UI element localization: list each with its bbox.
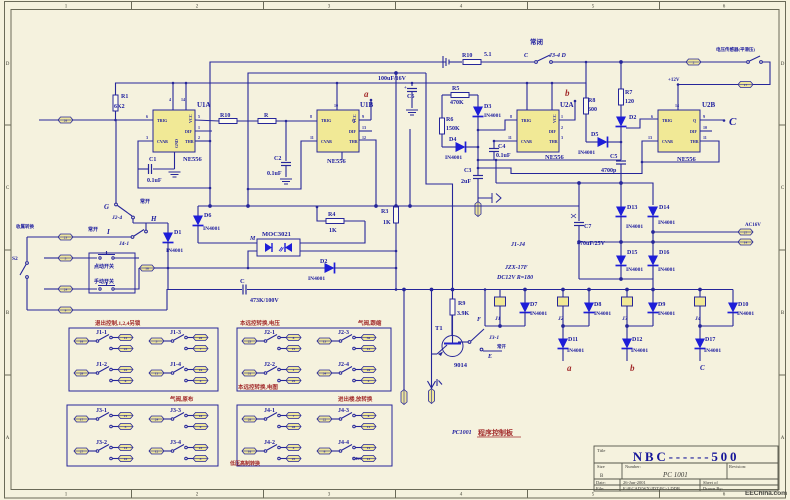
svg-text:R8: R8 bbox=[588, 98, 595, 104]
svg-text:J1-3: J1-3 bbox=[170, 330, 181, 336]
svg-text:0.1uF: 0.1uF bbox=[496, 153, 511, 159]
diode D16 bbox=[648, 242, 676, 279]
svg-text:20: 20 bbox=[248, 417, 252, 421]
svg-text:J3-3: J3-3 bbox=[170, 408, 181, 414]
relay coil J4 bbox=[694, 290, 706, 327]
svg-text:File:: File: bbox=[596, 486, 604, 491]
svg-text:J3-1: J3-1 bbox=[488, 335, 499, 341]
wire AC16V upper bbox=[652, 231, 738, 234]
diode D14 bbox=[648, 205, 676, 242]
relay contact J4-1 bbox=[242, 408, 301, 430]
resistor R9 3.9K bbox=[426, 73, 470, 336]
svg-text:9: 9 bbox=[703, 114, 705, 119]
svg-text:NE556: NE556 bbox=[677, 156, 697, 163]
svg-text:IN4001: IN4001 bbox=[658, 267, 675, 273]
svg-text:10: 10 bbox=[124, 457, 128, 461]
svg-text:IN4001: IN4001 bbox=[166, 248, 183, 254]
svg-text:IN4001: IN4001 bbox=[631, 348, 648, 354]
svg-text:D4: D4 bbox=[449, 137, 456, 143]
diode D17 bbox=[695, 326, 722, 361]
svg-text:TRIG: TRIG bbox=[321, 118, 331, 123]
svg-text:IN4001: IN4001 bbox=[530, 311, 547, 317]
svg-text:MOC3021: MOC3021 bbox=[262, 231, 291, 238]
relay contact J2-4 bbox=[317, 362, 376, 384]
svg-text:PC1001: PC1001 bbox=[452, 430, 472, 436]
svg-text:17: 17 bbox=[80, 417, 84, 421]
svg-text:IN4001: IN4001 bbox=[578, 150, 595, 156]
wire rail leg4 bbox=[699, 325, 733, 328]
svg-text:R3: R3 bbox=[381, 209, 388, 215]
svg-text:21: 21 bbox=[124, 414, 128, 418]
resistor R7 120 bbox=[619, 62, 635, 117]
svg-text:EEChina.com: EEChina.com bbox=[745, 490, 787, 497]
wire bridge top y183 bbox=[496, 182, 653, 205]
wire +12V rail top-left y83 bbox=[116, 83, 587, 98]
svg-text:15: 15 bbox=[367, 347, 371, 351]
svg-text:本远控转换,电图: 本远控转换,电图 bbox=[238, 383, 278, 391]
svg-text:点动开关: 点动开关 bbox=[94, 263, 114, 270]
node H bbox=[133, 215, 168, 233]
svg-text:H: H bbox=[150, 215, 157, 223]
resistor R bbox=[258, 113, 317, 124]
wire rail y62 right bbox=[553, 61, 687, 64]
svg-text:C: C bbox=[700, 364, 705, 372]
svg-text:进出楼,放转换: 进出楼,放转换 bbox=[338, 395, 373, 403]
svg-text:R10: R10 bbox=[220, 113, 230, 119]
svg-text:2uF: 2uF bbox=[461, 179, 471, 185]
svg-text:12: 12 bbox=[155, 449, 159, 453]
switch J3-4 normally closed bbox=[524, 37, 566, 63]
svg-text:D9: D9 bbox=[658, 302, 665, 308]
svg-text:17: 17 bbox=[744, 83, 748, 87]
svg-text:J4-1: J4-1 bbox=[118, 241, 129, 247]
svg-text:J1: J1 bbox=[494, 316, 501, 322]
svg-text:JZX-17F: JZX-17F bbox=[504, 265, 528, 271]
svg-text:TRIG: TRIG bbox=[662, 118, 672, 123]
svg-text:1K: 1K bbox=[383, 220, 391, 226]
svg-text:6: 6 bbox=[125, 379, 127, 383]
diode D8 bbox=[584, 290, 612, 327]
connector port 10 vertical bbox=[401, 390, 407, 405]
svg-text:8: 8 bbox=[293, 336, 295, 340]
relay coil J3 bbox=[621, 290, 633, 327]
svg-text:b: b bbox=[630, 363, 635, 373]
svg-text:1K: 1K bbox=[329, 228, 337, 234]
svg-text:Size: Size bbox=[597, 464, 605, 469]
title block bbox=[594, 446, 778, 491]
svg-text:25: 25 bbox=[292, 457, 296, 461]
svg-text:常开: 常开 bbox=[88, 226, 98, 233]
svg-text:3: 3 bbox=[146, 135, 148, 140]
svg-text:R10: R10 bbox=[462, 53, 472, 59]
svg-text:DIF: DIF bbox=[690, 129, 697, 134]
svg-text:IN4001: IN4001 bbox=[445, 155, 462, 161]
svg-text:DIF: DIF bbox=[549, 129, 556, 134]
svg-text:J1-4: J1-4 bbox=[170, 362, 181, 368]
connector port left middle bbox=[27, 234, 73, 240]
svg-text:J4: J4 bbox=[694, 316, 701, 322]
wire rail leg2 bbox=[562, 325, 589, 328]
relay contact box 1 bbox=[69, 328, 218, 391]
svg-text:J4-1: J4-1 bbox=[264, 408, 275, 414]
svg-text:F: F bbox=[477, 317, 481, 323]
svg-text:25: 25 bbox=[248, 339, 252, 343]
svg-text:D11: D11 bbox=[568, 337, 578, 343]
svg-text:气阀,原布: 气阀,原布 bbox=[169, 395, 194, 403]
svg-text:J2-4: J2-4 bbox=[111, 215, 122, 221]
svg-text:4: 4 bbox=[293, 446, 295, 450]
svg-text:D7: D7 bbox=[530, 302, 537, 308]
connector port jog bbox=[44, 255, 97, 261]
svg-text:F:\8\CAD\WX\JDT\PC-1.DDB: F:\8\CAD\WX\JDT\PC-1.DDB bbox=[623, 486, 680, 491]
svg-text:5: 5 bbox=[65, 256, 67, 260]
resistor R8 600 bbox=[584, 61, 598, 142]
svg-text:21: 21 bbox=[64, 235, 68, 239]
svg-text:J3-1: J3-1 bbox=[96, 408, 107, 414]
svg-text:THR: THR bbox=[549, 139, 558, 144]
svg-text:IN4001: IN4001 bbox=[658, 220, 675, 226]
svg-text:11: 11 bbox=[310, 135, 314, 140]
svg-text:J3-2: J3-2 bbox=[96, 440, 107, 446]
svg-text:19: 19 bbox=[367, 446, 371, 450]
connector port sensor return bbox=[678, 82, 753, 88]
node b bbox=[559, 88, 576, 120]
relay contact J3-1 bbox=[74, 408, 133, 430]
svg-text:C6: C6 bbox=[407, 94, 414, 100]
wire sensor return bbox=[753, 62, 770, 85]
svg-text:+: + bbox=[404, 86, 407, 91]
relay contact J3-3 bbox=[149, 408, 208, 430]
svg-text:13: 13 bbox=[362, 125, 366, 130]
diode D13 bbox=[616, 183, 644, 242]
svg-text:IN4001: IN4001 bbox=[658, 311, 675, 317]
svg-text:J1-J4: J1-J4 bbox=[510, 242, 525, 248]
svg-text:D15: D15 bbox=[627, 250, 637, 256]
svg-text:6: 6 bbox=[368, 414, 370, 418]
diode D2 bbox=[616, 115, 637, 160]
svg-text:R: R bbox=[264, 113, 269, 119]
svg-text:4: 4 bbox=[169, 97, 171, 102]
svg-text:IN4001: IN4001 bbox=[704, 348, 721, 354]
svg-text:11: 11 bbox=[508, 135, 512, 140]
svg-text:6: 6 bbox=[146, 114, 148, 119]
svg-text:4: 4 bbox=[200, 379, 202, 383]
svg-text:THR: THR bbox=[349, 139, 358, 144]
wire rail leg3 bbox=[626, 325, 653, 328]
svg-text:C: C bbox=[729, 116, 737, 128]
svg-text:3.9K: 3.9K bbox=[457, 311, 470, 317]
svg-text:R9: R9 bbox=[458, 301, 465, 307]
svg-text:J2-2: J2-2 bbox=[264, 362, 275, 368]
svg-text:CVAB: CVAB bbox=[521, 139, 532, 144]
svg-text:100uF/16V: 100uF/16V bbox=[378, 76, 407, 82]
diode D1 bbox=[163, 223, 184, 268]
svg-text:16: 16 bbox=[199, 368, 203, 372]
svg-text:C5: C5 bbox=[610, 154, 617, 160]
svg-text:U1A: U1A bbox=[197, 101, 211, 109]
ground under U1A bbox=[169, 172, 181, 177]
svg-text:IN4001: IN4001 bbox=[737, 311, 754, 317]
svg-text:常开: 常开 bbox=[497, 343, 506, 350]
relay contact J2-3 bbox=[317, 330, 376, 352]
svg-text:13: 13 bbox=[367, 457, 371, 461]
wire top rail y62 middle with ground tap bbox=[443, 56, 462, 68]
svg-text:7: 7 bbox=[200, 347, 202, 351]
svg-text:13: 13 bbox=[648, 135, 652, 140]
relay contact box 3 bbox=[67, 405, 218, 466]
svg-text:J1-1: J1-1 bbox=[96, 330, 107, 336]
diode D3 bbox=[473, 104, 502, 175]
svg-text:D2: D2 bbox=[629, 115, 636, 121]
svg-text:R1: R1 bbox=[121, 94, 128, 100]
svg-text:150K: 150K bbox=[446, 126, 460, 132]
svg-text:C4: C4 bbox=[498, 144, 505, 150]
capacitor C7 470uF/25V bbox=[571, 183, 606, 279]
svg-text:D2: D2 bbox=[320, 259, 327, 265]
wire bridge bottom y279 bbox=[579, 278, 654, 291]
svg-text:3: 3 bbox=[200, 457, 202, 461]
capacitor C6 100uF/16V bbox=[378, 76, 417, 108]
svg-text:VCC: VCC bbox=[552, 114, 557, 123]
svg-text:R5: R5 bbox=[452, 86, 459, 92]
connector port P1 input bbox=[39, 117, 153, 123]
svg-text:GND: GND bbox=[174, 139, 179, 148]
svg-text:T1: T1 bbox=[435, 325, 443, 332]
svg-text:IN4001: IN4001 bbox=[626, 267, 643, 273]
svg-text:IN4001: IN4001 bbox=[594, 311, 611, 317]
svg-text:9014: 9014 bbox=[454, 362, 468, 369]
svg-text:THR: THR bbox=[185, 139, 194, 144]
svg-text:11: 11 bbox=[155, 371, 159, 375]
svg-text:电压传感器(平滑压): 电压传感器(平滑压) bbox=[716, 46, 755, 53]
svg-text:22: 22 bbox=[323, 417, 327, 421]
svg-text:G: G bbox=[104, 203, 109, 211]
svg-text:Date:: Date: bbox=[596, 480, 606, 485]
svg-text:5: 5 bbox=[198, 114, 200, 119]
svg-text:8: 8 bbox=[324, 449, 326, 453]
svg-text:J1-2: J1-2 bbox=[96, 362, 107, 368]
diode D4 bbox=[442, 137, 478, 161]
svg-text:11: 11 bbox=[367, 425, 371, 429]
svg-text:13: 13 bbox=[323, 339, 327, 343]
svg-text:26: 26 bbox=[64, 118, 68, 122]
svg-text:U2B: U2B bbox=[702, 101, 716, 109]
pushbutton switch box 点动开关 手动开关 bbox=[89, 251, 139, 293]
svg-text:14: 14 bbox=[124, 446, 128, 450]
svg-text:低压高制转换: 低压高制转换 bbox=[229, 460, 261, 467]
timer IC U2A NE556 bbox=[477, 82, 574, 152]
switch pressure sensor bbox=[716, 46, 762, 63]
svg-text:600: 600 bbox=[588, 107, 597, 113]
svg-text:6: 6 bbox=[651, 114, 653, 119]
svg-text:CVAB: CVAB bbox=[662, 139, 673, 144]
svg-text:D5: D5 bbox=[591, 132, 598, 138]
connector port common bbox=[140, 265, 170, 289]
svg-text:E: E bbox=[487, 354, 492, 360]
svg-text:34: 34 bbox=[323, 371, 327, 375]
svg-text:D: D bbox=[6, 62, 10, 67]
relay contact J1-2 bbox=[74, 362, 133, 384]
svg-text:Title: Title bbox=[597, 448, 605, 453]
svg-text:J4-3: J4-3 bbox=[338, 408, 349, 414]
svg-text:J2-3: J2-3 bbox=[338, 330, 349, 336]
svg-text:8: 8 bbox=[510, 114, 512, 119]
svg-text:D6: D6 bbox=[204, 213, 211, 219]
relay contact box 4 bbox=[237, 405, 392, 466]
capacitor C1 bbox=[138, 157, 175, 184]
svg-text:A: A bbox=[781, 436, 785, 441]
svg-text:120: 120 bbox=[625, 99, 634, 105]
svg-text:20: 20 bbox=[199, 336, 203, 340]
svg-text:3: 3 bbox=[156, 339, 158, 343]
svg-text:C: C bbox=[240, 278, 245, 285]
svg-text:收属转换: 收属转换 bbox=[16, 223, 34, 230]
svg-text:NE556: NE556 bbox=[183, 156, 203, 163]
svg-text:Number:: Number: bbox=[625, 464, 641, 469]
svg-text:2: 2 bbox=[693, 60, 695, 64]
svg-text:CVAB: CVAB bbox=[157, 139, 168, 144]
relay contact J4-4 bbox=[317, 440, 376, 462]
svg-text:Drawn By:: Drawn By: bbox=[703, 486, 723, 491]
svg-text:473K/100V: 473K/100V bbox=[250, 298, 279, 304]
svg-text:9: 9 bbox=[362, 114, 364, 119]
svg-text:DIF: DIF bbox=[185, 129, 192, 134]
svg-text:PC 1001: PC 1001 bbox=[662, 471, 688, 479]
connector port bottom left bbox=[27, 290, 168, 314]
svg-text:14: 14 bbox=[744, 240, 748, 244]
svg-text:U2A: U2A bbox=[560, 101, 574, 109]
svg-text:24: 24 bbox=[155, 417, 159, 421]
wire rail y73 to R3 bbox=[248, 72, 426, 206]
capacitor C5 4700p bbox=[478, 154, 626, 183]
connector port sensor out bbox=[686, 59, 746, 65]
svg-text:10: 10 bbox=[334, 103, 338, 108]
svg-text:退出控制,1,2,4另锁: 退出控制,1,2,4另锁 bbox=[95, 319, 141, 327]
diode D5 bbox=[578, 132, 621, 156]
svg-text:AC16V: AC16V bbox=[745, 223, 761, 228]
svg-text:29: 29 bbox=[292, 379, 296, 383]
svg-text:470K: 470K bbox=[450, 100, 464, 106]
svg-text:J3-4 D: J3-4 D bbox=[548, 53, 566, 59]
wire C6 return to rail bbox=[409, 129, 411, 206]
wire AC16V lower bbox=[578, 241, 738, 244]
svg-text:18: 18 bbox=[145, 266, 149, 270]
relay contact J1-3 bbox=[149, 330, 208, 352]
svg-text:D10: D10 bbox=[738, 302, 748, 308]
svg-text:b: b bbox=[565, 88, 570, 98]
node G contact J2-4 bbox=[104, 120, 150, 223]
relay coil J1 bbox=[494, 290, 506, 327]
svg-text:26: 26 bbox=[367, 368, 371, 372]
svg-text:J3-4: J3-4 bbox=[170, 440, 181, 446]
wire rail leg1 bbox=[485, 325, 525, 328]
svg-text:J3: J3 bbox=[621, 316, 628, 322]
svg-text:本远控转换,电压: 本远控转换,电压 bbox=[240, 319, 280, 327]
connector port AC16V upper bbox=[738, 223, 761, 235]
node +12V bbox=[668, 78, 680, 86]
svg-text:手动开关: 手动开关 bbox=[94, 278, 114, 285]
switch S2 bbox=[12, 237, 28, 310]
svg-text:J4-4: J4-4 bbox=[338, 440, 349, 446]
svg-text:14: 14 bbox=[675, 103, 679, 108]
svg-text:a: a bbox=[364, 89, 369, 99]
svg-text:1: 1 bbox=[293, 368, 295, 372]
wire to port 10 bbox=[403, 288, 406, 390]
diode D2 lower bbox=[168, 259, 397, 282]
resistor R3 1K bbox=[381, 207, 399, 290]
connector port vertical J node bbox=[475, 193, 501, 217]
svg-text:IN4001: IN4001 bbox=[626, 224, 643, 230]
svg-text:1: 1 bbox=[198, 125, 200, 130]
svg-text:30: 30 bbox=[367, 336, 371, 340]
svg-text:18: 18 bbox=[199, 414, 203, 418]
svg-text:IN4001: IN4001 bbox=[484, 113, 501, 119]
resistor R10b 5.1 bbox=[462, 52, 534, 65]
svg-text:a: a bbox=[567, 363, 572, 373]
relay contact J3-2 bbox=[74, 440, 133, 462]
svg-text:31: 31 bbox=[248, 371, 252, 375]
label PC1001 程序控制板 bbox=[452, 428, 521, 437]
diode D12 bbox=[622, 326, 649, 361]
wire relay bus y289 bbox=[404, 288, 733, 291]
svg-text:Sheet of: Sheet of bbox=[703, 480, 718, 485]
svg-text:D13: D13 bbox=[627, 205, 637, 211]
svg-text:DC12V R=180: DC12V R=180 bbox=[496, 275, 533, 281]
svg-text:2: 2 bbox=[561, 125, 563, 130]
relay contact J2-2 bbox=[242, 362, 301, 384]
svg-text:D: D bbox=[781, 62, 785, 67]
label J1-J4 relays bbox=[496, 242, 533, 281]
svg-text:TRIG: TRIG bbox=[521, 118, 531, 123]
svg-text:IN4001: IN4001 bbox=[567, 348, 584, 354]
diode D9 bbox=[648, 290, 676, 327]
svg-text:2: 2 bbox=[198, 135, 200, 140]
svg-text:S2: S2 bbox=[12, 256, 18, 262]
svg-text:12: 12 bbox=[362, 135, 366, 140]
svg-text:5.1: 5.1 bbox=[484, 52, 492, 58]
svg-text:C3: C3 bbox=[464, 168, 471, 174]
svg-text:R7: R7 bbox=[625, 90, 632, 96]
svg-text:R4: R4 bbox=[328, 212, 335, 218]
relay contact box 2 bbox=[237, 328, 391, 391]
svg-text:R6: R6 bbox=[446, 117, 453, 123]
svg-text:气阀,跟缩: 气阀,跟缩 bbox=[357, 319, 382, 327]
diode D10 bbox=[728, 290, 755, 327]
svg-text:10: 10 bbox=[703, 125, 707, 130]
resistor R10 bbox=[219, 113, 258, 124]
resistor R4 1K bbox=[316, 206, 365, 234]
svg-text:22: 22 bbox=[124, 368, 128, 372]
svg-text:11: 11 bbox=[703, 135, 707, 140]
svg-text:9: 9 bbox=[65, 308, 67, 312]
svg-text:IN4001: IN4001 bbox=[308, 276, 325, 282]
transistor T1 9014 bbox=[432, 290, 469, 378]
relay contact J4-2 bbox=[242, 440, 301, 462]
capacitor C2 bbox=[267, 121, 291, 177]
optocoupler M MOC3021 bbox=[248, 221, 397, 268]
svg-text:NE556: NE556 bbox=[327, 158, 347, 165]
svg-text:J2-4: J2-4 bbox=[338, 362, 349, 368]
svg-text:23: 23 bbox=[199, 446, 203, 450]
svg-text:27: 27 bbox=[744, 230, 748, 234]
svg-text:16: 16 bbox=[248, 449, 252, 453]
svg-text:M: M bbox=[249, 236, 256, 242]
svg-text:8: 8 bbox=[310, 114, 312, 119]
ground under C6 bbox=[406, 110, 418, 115]
svg-text:J4-2: J4-2 bbox=[264, 440, 275, 446]
relay contact J4-3 bbox=[317, 408, 376, 430]
timer IC U1A NE556 bbox=[138, 82, 219, 190]
